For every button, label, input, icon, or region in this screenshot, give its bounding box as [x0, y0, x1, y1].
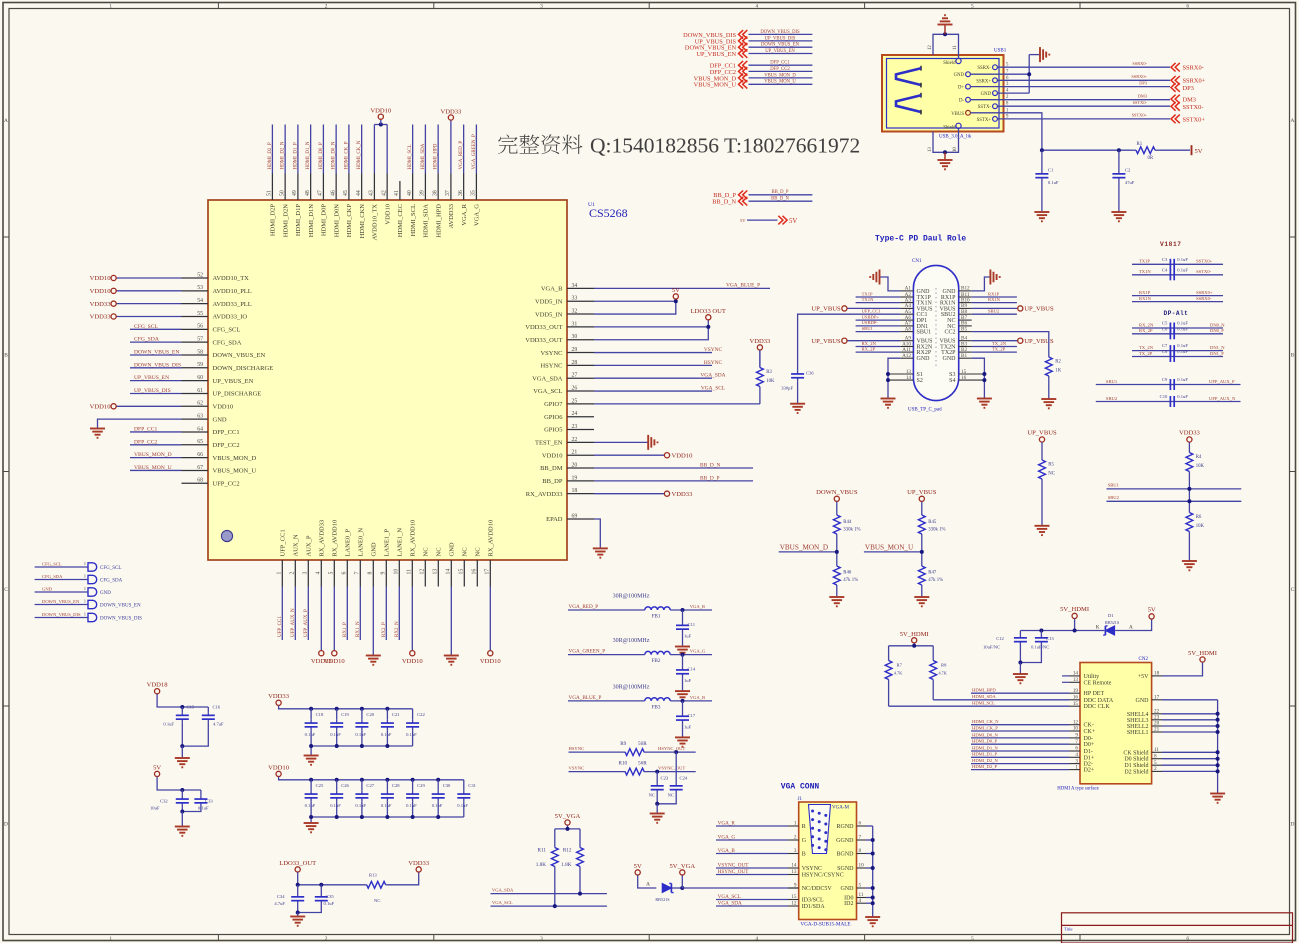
wire J1 pin ID0 to bus	[866, 897, 873, 899]
wire FB1 to VGA_R	[670, 609, 712, 611]
ground (pin 14)	[444, 655, 459, 657]
wire UFP_CC1 A5	[798, 314, 901, 370]
svg-text:0.1uF: 0.1uF	[1177, 267, 1188, 272]
wire net CFG_SDA pin 57	[130, 341, 182, 343]
svg-text:UP_VBUS: UP_VBUS	[1024, 338, 1054, 345]
svg-text:51: 51	[267, 190, 273, 196]
capacitor C23	[656, 784, 658, 786]
resistor R9	[624, 751, 626, 753]
svg-text:C: C	[4, 587, 8, 593]
svg-text:R47: R47	[928, 571, 937, 576]
svg-text:R12: R12	[563, 848, 572, 854]
wire VDD10 stem	[380, 120, 382, 125]
J1 pin 4 ID2	[857, 902, 867, 904]
svg-text:R4: R4	[1196, 455, 1202, 460]
svg-text:4: 4	[859, 898, 862, 904]
svg-text:DN1_P: DN1_P	[1210, 351, 1224, 356]
svg-text:USBDP+: USBDP+	[862, 314, 880, 319]
port arrow DP3	[1171, 83, 1176, 92]
wire GPIO7 pin 25 to R3	[594, 403, 760, 405]
wire C33 stem	[200, 790, 202, 796]
svg-text:UP_VBUS: UP_VBUS	[1027, 430, 1057, 437]
svg-text:VSYNC_OUT: VSYNC_OUT	[718, 862, 750, 868]
svg-text:HDMI_D1_P: HDMI_D1_P	[293, 142, 298, 169]
ground (C34/C35)	[290, 916, 305, 918]
wire VDD33 to pin 54	[116, 303, 181, 305]
U1 pin 46 HDMI_D0N	[335, 174, 337, 201]
power port 5V (VBUS)	[1191, 145, 1193, 155]
wire top pin 37	[450, 125, 452, 174]
wire C30 stem	[437, 780, 439, 791]
svg-text:BB_DM: BB_DM	[540, 465, 563, 472]
U1 pin 35 VGA_G	[475, 174, 477, 201]
port arrow SSTX0+	[1171, 115, 1176, 124]
wire bottom pin 10	[398, 587, 400, 641]
wire VGA_BLUE_P pin 34	[594, 287, 770, 289]
svg-text:GND: GND	[449, 542, 456, 556]
capacitor C24	[675, 784, 677, 786]
svg-text:DOWN_VBUS_EN: DOWN_VBUS_EN	[100, 604, 141, 609]
svg-text:9: 9	[381, 572, 387, 575]
junction C26 top	[335, 778, 339, 782]
svg-text:RX_2N: RX_2N	[1139, 322, 1154, 327]
wire VGA_GREEN_P to FB2	[568, 654, 645, 656]
capacitor C20	[361, 720, 363, 723]
junction C29 bottom	[411, 815, 415, 819]
wire bottom pin 5	[333, 587, 335, 651]
resistor R2	[1048, 351, 1050, 357]
U1 pin-1 marker	[221, 530, 232, 541]
svg-text:GND: GND	[954, 73, 965, 78]
ferrite bead FB1	[645, 607, 670, 610]
svg-text:VBUS_MON_D: VBUS_MON_D	[134, 452, 172, 458]
svg-text:AVDD10_TX: AVDD10_TX	[372, 204, 379, 241]
ground (C15/C16)	[175, 757, 190, 759]
U1 pin 23 GPIO5	[567, 429, 594, 431]
wire C16 stem	[207, 707, 209, 712]
svg-text:69: 69	[572, 513, 578, 519]
svg-text:1: 1	[109, 4, 112, 10]
wire net BB_D_N pin 20	[594, 467, 753, 469]
U1 pin 8 GND	[372, 560, 374, 587]
wire CE/Utility stubs	[1062, 675, 1070, 677]
junction C32 bottom	[180, 810, 184, 814]
wire bottom pin 3	[307, 587, 309, 641]
svg-text:61: 61	[197, 388, 203, 394]
port arrow DOWN_VBUS_DIS	[739, 30, 744, 39]
wire net HDMI_D0_N	[971, 737, 1070, 739]
J1 pin 1 R	[788, 825, 799, 827]
capacitor C33	[200, 796, 202, 799]
wire TEST_EN pin 22	[594, 441, 648, 443]
svg-text:C32: C32	[160, 798, 168, 803]
CN1 pin B11 RX1P	[959, 296, 972, 298]
svg-text:VGA_GREEN_P: VGA_GREEN_P	[569, 649, 606, 655]
wire FB2 to VGA_G	[670, 654, 712, 656]
wire 5V_VGA stem	[567, 825, 569, 829]
CN2 pin 12 CK-	[1070, 724, 1081, 726]
svg-text:S3: S3	[949, 372, 955, 378]
svg-text:SSTX-: SSTX-	[978, 105, 992, 110]
CN2 pin 7 D0+	[1070, 743, 1081, 745]
wire R10 to VSYNC_OUT	[644, 771, 696, 773]
svg-text:330k 1%: 330k 1%	[843, 528, 860, 533]
svg-text:S4: S4	[949, 378, 955, 384]
wire C14 stem	[682, 655, 684, 666]
wire UP_VBUS B4	[972, 340, 1018, 342]
U1 pin 24 GPIO6	[567, 416, 594, 418]
svg-text:16: 16	[1073, 695, 1079, 701]
junction C11	[681, 608, 685, 612]
svg-text:VGA_SCL: VGA_SCL	[701, 386, 725, 392]
junction VBUS_MON_D	[835, 550, 839, 554]
wire C25 stem	[310, 780, 312, 791]
svg-text:DFP_CC1: DFP_CC1	[213, 429, 240, 436]
junction J1 ID0	[871, 896, 875, 900]
svg-text:SBU1: SBU1	[862, 326, 874, 331]
wire C26 bottom	[336, 801, 338, 817]
svg-text:A: A	[1291, 118, 1295, 124]
U1 pin 44 HDMI_CKN	[361, 174, 363, 201]
svg-text:TEST_EN: TEST_EN	[535, 440, 563, 447]
svg-text:VGA_SCL: VGA_SCL	[492, 900, 513, 905]
svg-text:35: 35	[471, 190, 477, 196]
wire D2 to 5V_VGA	[672, 887, 682, 889]
wire GND pin 8	[372, 587, 374, 656]
ground (CN1 left S)	[881, 398, 896, 400]
svg-text:12: 12	[928, 45, 933, 50]
wire VGA_RED_P to FB1	[568, 609, 645, 611]
svg-text:18: 18	[1154, 671, 1160, 677]
svg-text:VGA_G: VGA_G	[690, 649, 706, 654]
capacitor C14	[682, 666, 684, 670]
svg-text:HDMI_D2P: HDMI_D2P	[270, 204, 277, 237]
port arrow DFP_CC2	[739, 67, 744, 76]
svg-text:4: 4	[316, 572, 322, 575]
wire top pin 43	[373, 125, 375, 174]
U1 pin 49 HDMI_D1P	[297, 174, 299, 201]
svg-text:1uF: 1uF	[684, 724, 692, 729]
junction 5V_VGA rail	[566, 827, 570, 831]
svg-text:SSRX0-: SSRX0-	[1183, 65, 1204, 72]
svg-text:12: 12	[1073, 719, 1079, 725]
wire C18 stem	[310, 709, 312, 720]
power port 5V_HDMI (R7/R8)	[912, 638, 917, 643]
svg-text:CK+: CK+	[1084, 729, 1096, 735]
svg-text:R8: R8	[941, 663, 947, 668]
wire A12 GND to S-ground	[888, 358, 900, 398]
svg-text:AUX_P: AUX_P	[306, 535, 313, 556]
wire to ground (C34/C35)	[297, 913, 299, 917]
svg-text:2: 2	[794, 835, 797, 841]
USB1 contact zigzag upper	[920, 66, 922, 71]
CN1 middle dashed divider	[935, 288, 937, 366]
ground (CN1 right S)	[977, 398, 992, 400]
svg-text:8: 8	[368, 572, 374, 575]
wire TX1P to SSTX0+	[1132, 263, 1223, 265]
wire C31 stem	[463, 780, 465, 791]
wire C11 stem	[682, 610, 684, 621]
svg-text:C19: C19	[341, 712, 349, 717]
svg-text:D2+: D2+	[1084, 768, 1095, 774]
svg-text:C14: C14	[688, 667, 696, 672]
CN1 pin A12 GND	[900, 357, 913, 359]
J1 pin 3 B	[788, 853, 799, 855]
junction pins 33/32	[674, 299, 678, 303]
svg-text:R10: R10	[619, 761, 628, 767]
svg-text:SSTX0+: SSTX0+	[1196, 259, 1213, 264]
svg-text:AVDD33_IO: AVDD33_IO	[213, 314, 248, 321]
U1 pin 43 AVDD10_TX	[373, 174, 375, 201]
wire RX_2P to DN0_P	[1132, 333, 1223, 335]
svg-text:DN1_N: DN1_N	[1210, 345, 1225, 350]
svg-text:5: 5	[1154, 760, 1157, 766]
wire C13 stem	[1040, 631, 1042, 635]
svg-text:30R@100MHz: 30R@100MHz	[613, 638, 650, 644]
svg-text:17: 17	[1154, 695, 1160, 701]
wire VBUS row	[970, 113, 1042, 150]
CN1 pin B6 NC	[959, 325, 972, 327]
svg-text:VDD5_IN: VDD5_IN	[535, 311, 563, 318]
ground (C2)	[1111, 211, 1126, 213]
capacitor C4	[1169, 269, 1171, 280]
svg-text:VSYNC_OUT: VSYNC_OUT	[658, 766, 686, 771]
wire VGA_BLUE_P to FB3	[568, 700, 645, 702]
svg-text:11: 11	[953, 45, 958, 50]
svg-text:A: A	[646, 882, 650, 888]
J1 pin 8 BGND	[857, 853, 867, 855]
U1 pin 27 VGA_SDA	[567, 377, 594, 379]
svg-text:HDMI_D1N: HDMI_D1N	[308, 204, 315, 238]
wire net HDMI_D1_P	[971, 756, 1070, 758]
svg-text:CN2: CN2	[1139, 657, 1149, 662]
junction J1 GGND	[871, 838, 875, 842]
wire TX_2P to DN1_P	[1132, 356, 1223, 358]
svg-text:VDD10: VDD10	[90, 404, 112, 411]
svg-text:R44: R44	[843, 520, 852, 525]
svg-text:CFG_SCL: CFG_SCL	[213, 327, 241, 334]
svg-text:HDMI_CKN: HDMI_CKN	[359, 204, 366, 239]
svg-text:0.1uF: 0.1uF	[324, 901, 335, 906]
svg-text:0.1uF: 0.1uF	[457, 803, 468, 808]
svg-text:D0-: D0-	[1084, 736, 1093, 742]
CN1 pin S2	[888, 379, 913, 381]
svg-text:6: 6	[342, 572, 348, 575]
wire VDD10 to pin 62	[116, 405, 181, 407]
U1 pin 50 HDMI_D2N	[284, 174, 286, 201]
power port LDO33_OUT (C34)	[295, 867, 300, 872]
CN1 pin B5 CC2	[959, 331, 972, 333]
svg-text:RX_AVDD33: RX_AVDD33	[526, 491, 563, 498]
svg-text:DM3: DM3	[1183, 96, 1197, 103]
svg-text:0.1uF: 0.1uF	[1177, 394, 1188, 399]
svg-text:VBUS_MON_U: VBUS_MON_U	[865, 543, 914, 551]
svg-text:TX1N: TX1N	[862, 297, 874, 302]
wire GND/shield bus	[1162, 699, 1218, 701]
svg-text:HDMI_D2_N: HDMI_D2_N	[281, 141, 286, 169]
junction J1 SGND	[871, 866, 875, 870]
wire R13 to VDD33	[386, 872, 418, 885]
junction C26 bottom	[335, 815, 339, 819]
wire C26 stem	[336, 780, 338, 791]
junction C20 top	[360, 707, 364, 711]
svg-text:BGND: BGND	[836, 852, 854, 858]
svg-text:40: 40	[407, 190, 413, 196]
svg-text:SBU1: SBU1	[917, 330, 932, 336]
capacitor C34	[297, 894, 299, 897]
svg-text:C4: C4	[1162, 267, 1168, 272]
svg-text:VDD33: VDD33	[408, 860, 430, 867]
junction SBU1	[1187, 487, 1191, 491]
svg-text:UFP_CC1: UFP_CC1	[280, 529, 287, 556]
wire UP_VBUS A4	[847, 307, 900, 309]
ferrite bead FB3	[645, 698, 670, 701]
svg-text:BB_D_N: BB_D_N	[712, 199, 736, 206]
svg-text:VBUS_MON_U: VBUS_MON_U	[694, 82, 737, 89]
svg-text:SSTX+: SSTX+	[977, 118, 992, 123]
svg-text:C18: C18	[316, 712, 324, 717]
wire C27 stem	[361, 780, 363, 791]
svg-text:RX1P: RX1P	[988, 291, 1000, 296]
wire testpoint DOWN_VBUS_DIS	[35, 617, 88, 619]
svg-text:49: 49	[292, 190, 298, 196]
svg-text:VBUS_MON_D: VBUS_MON_D	[780, 543, 828, 551]
svg-text:HSYNC: HSYNC	[540, 363, 562, 370]
CN1 pin A8 SBU1	[900, 331, 913, 333]
svg-text:330k 1%: 330k 1%	[928, 528, 945, 533]
port arrow BB_D_P	[739, 191, 744, 200]
port arrow BB_D_N	[739, 197, 744, 206]
wire net RX_2N A10	[856, 346, 901, 348]
svg-text:DP3: DP3	[1183, 85, 1194, 92]
svg-text:11: 11	[407, 569, 413, 575]
svg-text:R6: R6	[1196, 515, 1202, 520]
svg-text:33: 33	[572, 296, 578, 302]
wire VDD10 bank rail	[279, 777, 464, 780]
junction C28 top	[385, 778, 389, 782]
svg-text:5V: 5V	[1148, 607, 1156, 614]
capacitor C36 (CC1)	[797, 371, 799, 374]
svg-text:UP_DISCHARGE: UP_DISCHARGE	[213, 391, 262, 398]
svg-text:12: 12	[791, 901, 797, 907]
resistor R47	[921, 562, 923, 566]
wire C2 stem	[1118, 150, 1120, 169]
svg-text:HDMI_CK_N: HDMI_CK_N	[357, 140, 362, 169]
wire USB GND row	[970, 73, 1029, 75]
svg-text:0.1uF: 0.1uF	[1177, 321, 1188, 326]
wire net DFP_CC1 pin 64	[130, 431, 182, 433]
svg-text:C17: C17	[688, 713, 696, 718]
wire net VSYNC pin 29	[594, 352, 712, 354]
svg-text:UFP_AUX_N: UFP_AUX_N	[291, 608, 296, 637]
svg-text:UP_VBUS_DIS: UP_VBUS_DIS	[765, 36, 796, 41]
svg-text:10K: 10K	[1196, 524, 1205, 529]
svg-text:CFG_SDA: CFG_SDA	[100, 579, 123, 584]
svg-text:B: B	[1291, 352, 1295, 358]
svg-text:VGA_SDA: VGA_SDA	[700, 373, 725, 379]
svg-text:GND: GND	[213, 416, 227, 423]
J1 pin 14 VSYNC	[788, 867, 799, 869]
port arrow VBUS_MON_U	[739, 80, 744, 89]
wire VDD10 bank bottom rail	[311, 816, 464, 818]
svg-text:NC: NC	[374, 898, 380, 903]
svg-text:C26: C26	[341, 783, 349, 788]
svg-text:Type-C PD Daul Role: Type-C PD Daul Role	[875, 235, 966, 244]
port arrow DFP_CC1	[739, 61, 744, 70]
wire RX1N to SSRX0-	[1132, 301, 1223, 303]
svg-text:30R@100MHz: 30R@100MHz	[613, 594, 650, 600]
svg-text:6: 6	[1075, 746, 1078, 752]
U1 pin 9 LANE1_P	[385, 560, 387, 587]
svg-text:20: 20	[572, 462, 578, 468]
svg-text:0.1uF: 0.1uF	[330, 732, 341, 737]
svg-text:53: 53	[197, 285, 203, 291]
U1 pin 67 VBUS_MON_U	[182, 469, 209, 471]
svg-text:DN0_N: DN0_N	[1210, 322, 1225, 327]
svg-text:C: C	[1291, 587, 1295, 593]
svg-text:S2: S2	[917, 378, 923, 384]
U1 pin 3 AUX_P	[307, 560, 309, 587]
svg-text:R: R	[802, 824, 806, 830]
svg-text:VDD10: VDD10	[213, 404, 234, 411]
svg-text:VGA_SCL: VGA_SCL	[718, 894, 741, 900]
svg-text:UP_VBUS: UP_VBUS	[907, 489, 937, 496]
ground (C11)	[675, 646, 690, 648]
svg-text:17: 17	[485, 569, 491, 575]
wire D1 Shield to bus	[1162, 764, 1218, 766]
wire USB shield top	[933, 34, 959, 58]
wire SHELL3 to bus	[1162, 719, 1218, 721]
svg-text:RX1_N: RX1_N	[356, 621, 361, 637]
svg-text:58: 58	[197, 349, 203, 355]
wire R46 to ground	[836, 589, 838, 597]
svg-text:C33: C33	[205, 798, 213, 803]
svg-text:DFP_CC2: DFP_CC2	[770, 67, 790, 72]
wire 5V rail (C32)	[157, 777, 201, 790]
CN2 pin 16 DDC DATA	[1070, 699, 1081, 701]
wire LDO33_OUT stem	[707, 320, 709, 327]
power port UP_VBUS (B9)	[1018, 306, 1023, 311]
svg-text:C29: C29	[417, 783, 425, 788]
svg-text:10: 10	[1073, 726, 1079, 732]
svg-text:LANE0_N: LANE0_N	[358, 528, 365, 557]
svg-text:NC: NC	[1048, 472, 1055, 477]
svg-text:DOWN_VBUS_EN: DOWN_VBUS_EN	[213, 352, 266, 359]
wire R11/R12 rail	[555, 828, 580, 830]
svg-text:10uF/NC: 10uF/NC	[983, 645, 1000, 650]
wire net VGA_SCL pin 26	[594, 390, 712, 392]
svg-text:AVDD10_PLL: AVDD10_PLL	[213, 288, 252, 295]
svg-text:UP_VBUS: UP_VBUS	[811, 306, 841, 313]
wire testpoint CFG_SCL	[35, 566, 88, 568]
CN1 pin B1 GND	[959, 357, 972, 359]
junction R12 SDA	[578, 892, 582, 896]
U1 pin 60 UP_VBUS_EN	[182, 380, 209, 382]
U1 pin 47 HDMI_D0P	[322, 174, 324, 201]
svg-text:GND: GND	[1136, 698, 1150, 704]
svg-text:VDD33_OUT: VDD33_OUT	[525, 324, 562, 331]
U1 pin 5 RX_AVDD10	[333, 560, 335, 587]
svg-text:R46: R46	[843, 571, 852, 576]
U1 pin 20 BB_DM	[567, 467, 594, 469]
svg-text:1.8K: 1.8K	[536, 862, 546, 868]
svg-text:5V_HDMI: 5V_HDMI	[1188, 650, 1217, 657]
svg-text:24: 24	[572, 411, 578, 417]
svg-text:EPAD: EPAD	[546, 516, 563, 523]
power port 5V_VGA (D2)	[680, 870, 685, 875]
svg-text:C12: C12	[996, 636, 1004, 641]
wire C12 stem	[1019, 631, 1021, 635]
